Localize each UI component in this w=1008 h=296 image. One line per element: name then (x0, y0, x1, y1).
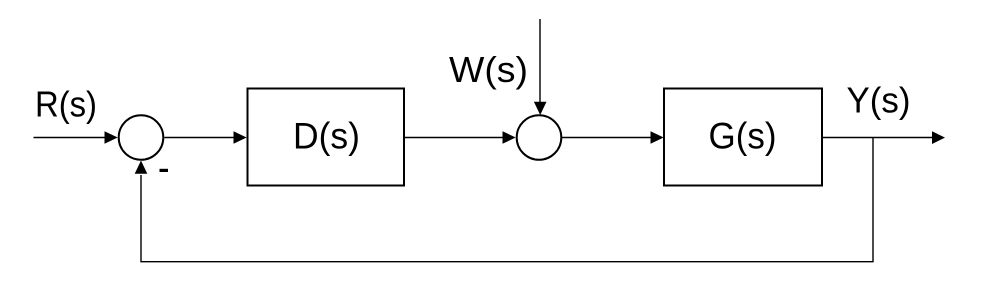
arrowhead into G(s) left (651, 131, 664, 144)
svg-text:R(s): R(s) (35, 84, 97, 125)
wire G(s) to output Y(s) (822, 137, 933, 139)
arrowhead into D(s) left (234, 131, 247, 144)
minus sign at S1 feedback input (160, 169, 169, 172)
svg-text:W(s): W(s) (449, 49, 528, 90)
arrowhead feedback into summer S1 bottom (135, 161, 148, 174)
summing junction S1 (119, 115, 164, 160)
arrowhead into summer S1 left (105, 131, 118, 144)
wire W(s) disturbance down into summer S2 (539, 19, 541, 104)
wire R(s) input to summer S1 (34, 137, 107, 139)
svg-text:G(s): G(s) (709, 116, 777, 157)
arrowhead output Y(s) (932, 131, 945, 144)
svg-text:D(s): D(s) (293, 116, 360, 157)
summing junction S2 (517, 115, 562, 160)
block G(s) plant (664, 89, 822, 186)
block D(s) controller (248, 89, 405, 186)
wire summer S1 to block D(s) (164, 137, 235, 139)
wire summer S2 to block G(s) (561, 137, 652, 139)
arrowhead into summer S2 left (503, 131, 516, 144)
arrowhead into summer S2 top (534, 102, 547, 115)
wire D(s) to summer S2 (404, 137, 504, 139)
svg-text:Y(s): Y(s) (847, 80, 911, 121)
wire feedback from output tap down, across, and up to S1 (141, 138, 873, 262)
